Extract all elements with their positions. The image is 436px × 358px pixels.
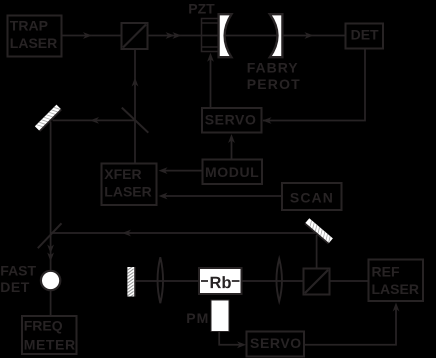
svg-text:SERVO: SERVO [250,335,302,351]
arrow on TRAP beam pointing right [83,32,92,39]
wire: PM down and right to SERVO2 [219,332,240,345]
arrow before DET pointing right [305,32,314,39]
box FREQ METER [22,316,77,354]
label Rb [211,276,231,288]
wire: plate to top-left mirror going left [53,119,136,121]
svg-text:FABRY: FABRY [247,60,299,76]
svg-text:MODUL: MODUL [205,164,259,180]
arrow pointing left on beat beam [122,230,131,237]
double arrow after BS1 pointing right [166,32,182,39]
lens L2 [276,259,282,302]
box SCAN [282,183,342,210]
svg-text:SERVO: SERVO [205,111,257,127]
wire: DET down and left into SERVO1 [263,48,365,121]
svg-text:XFER: XFER [104,166,141,182]
arrow into PZT bottom pointing up [207,53,214,62]
svg-text:PEROT: PEROT [247,76,301,92]
arrow pointing left toward mirror M1 [90,117,99,124]
arrow pointing up toward BS1 [132,78,139,87]
svg-text:LASER: LASER [104,183,151,199]
box SERVO2 [247,332,305,357]
svg-text:DET: DET [0,279,30,295]
svg-text:PZT: PZT [188,0,215,16]
svg-text:PM: PM [186,310,209,326]
wire: FAST DET down to FREQ METER [50,290,52,316]
arrow into XFER right side pointing left [159,167,168,174]
box TRAP LASER [8,16,62,57]
svg-text:LASER: LASER [10,35,57,51]
wire: bottom beam from flat mirror through Rb to BS2 [135,280,304,282]
wire: mirror M1 down to FAST DET [50,122,52,273]
PZT actuator stack [202,19,220,52]
plate P2 bottom-left (beam combiner) [38,223,62,248]
photodiode FAST DET (circle) [41,271,60,290]
wire: SCAN left to XFER LASER [164,195,282,197]
svg-text:REF: REF [372,264,400,280]
box MODUL [203,160,263,185]
wire: mirror M2 down to BS2 [316,235,318,269]
arrow into SERVO1 right side pointing left [263,117,272,124]
cavity mirror left (plano-concave) [219,14,232,57]
wire: XFER LASER up through plate to BS1 [134,49,136,164]
arrow into REF LASER bottom pointing up [393,303,400,312]
photomultiplier PM (white tube) [211,300,229,332]
wire: SERVO1 up to PZT [210,59,212,109]
wire: MODUL up to SERVO1 [231,139,233,160]
wire: BS2 right to REF LASER [330,280,369,282]
svg-text:LASER: LASER [372,281,419,297]
svg-text:FREQ: FREQ [24,317,63,333]
svg-text:METER: METER [24,337,76,353]
Rb vapour cell [199,268,242,294]
beamsplitter cube BS1 [122,23,148,49]
flat mirror (retro, hatched) [127,266,136,303]
beamsplitter cube BS2 [304,269,330,295]
box XFER LASER [102,164,157,206]
box REF LASER [369,260,424,302]
lens L1 [158,257,164,303]
svg-text:DET: DET [351,27,379,43]
double arrow pointing down into FAST DET [47,245,54,262]
wire: TRAP LASER to beamsplitter BS1 [62,35,122,37]
wire: BS1 through PZT and cavity to DET [148,35,346,37]
arrow into SERVO2 left side pointing right [237,341,246,348]
svg-text:TRAP: TRAP [10,17,48,33]
mirror M2 right (hatched) [304,218,333,244]
box SERVO1 [202,108,262,133]
wire: SERVO2 right and up to REF LASER [304,307,396,345]
label FAST DET [0,262,36,295]
svg-text:FAST: FAST [0,262,36,278]
mirror M1 top-left (hatched) [35,105,62,132]
cavity mirror right (plano-concave) [270,14,283,57]
box DET [346,24,384,49]
svg-text:SCAN: SCAN [290,189,334,205]
plate P1 center (XFER pickoff) [122,108,149,133]
arrow into SERVO1 bottom pointing up [228,134,235,143]
label FABRY PEROT [247,60,301,92]
arrow into XFER right side lower pointing left [159,193,168,200]
wire: MODUL left to XFER LASER [164,170,203,172]
wire: long beat beam from mirror M2 left to plate P2 [51,232,316,234]
